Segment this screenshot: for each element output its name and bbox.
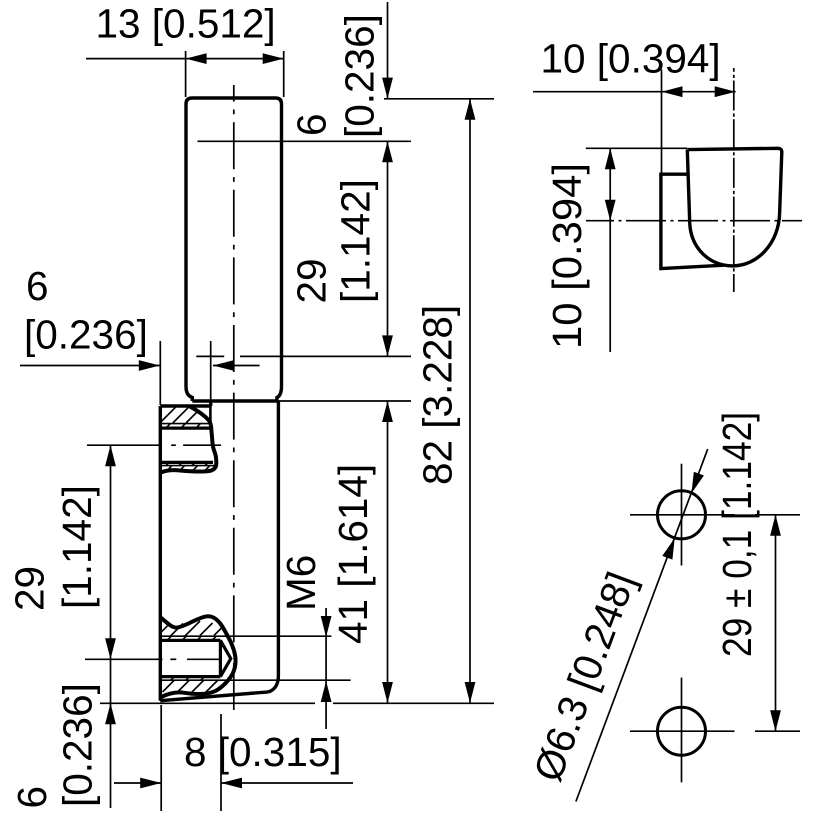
dim 6 [0.236] left-top: extension lines xyxy=(159,341,161,405)
leader line Ø6.3 xyxy=(576,449,708,801)
M6 hole top edge xyxy=(160,639,220,642)
upper hole centerline xyxy=(87,444,161,446)
svg-text:[1.142]: [1.142] xyxy=(54,485,100,609)
svg-text:13 [0.512]: 13 [0.512] xyxy=(96,1,276,47)
dim 10 [0.394] left: extension line at top edge level xyxy=(586,147,687,149)
dim 29 [1.142] right: dimension line xyxy=(387,141,389,356)
drill point cone xyxy=(220,640,230,676)
svg-text:41 [1.614]: 41 [1.614] xyxy=(330,464,376,644)
svg-text:6: 6 xyxy=(26,263,49,309)
dim 6 left-bottom arrow below y=703 xyxy=(105,703,116,724)
upper thread crest top line xyxy=(160,423,209,425)
line at y=141 (6mm feature line) xyxy=(198,140,412,142)
dim M6 leader line xyxy=(325,608,327,729)
bottom extension line at y=703 xyxy=(100,702,315,704)
top line extension at y=99 xyxy=(384,98,494,100)
leaf tab outline xyxy=(661,174,724,268)
shoulder extension line to the right (for 41 dim) xyxy=(278,400,411,402)
upper hole right step edge xyxy=(209,406,212,428)
dim 10 left dimension line xyxy=(609,148,611,352)
svg-text:[1.142]: [1.142] xyxy=(333,179,379,303)
hole circle bottom crosshair xyxy=(681,678,683,783)
upper hole top edge xyxy=(160,427,211,430)
dim 13 [0.512] dimension line with arrows xyxy=(86,58,284,60)
dim 29 [1.142] left: dimension line xyxy=(110,445,112,808)
svg-text:6: 6 xyxy=(289,113,335,136)
M6 hole bottom edge xyxy=(160,675,220,678)
svg-text:10 [0.394]: 10 [0.394] xyxy=(541,36,721,82)
svg-text:29 ± 0,1 [1.142]: 29 ± 0,1 [1.142] xyxy=(714,412,760,657)
lower break wave xyxy=(160,616,235,697)
extension line at y=355.6 xyxy=(196,355,224,357)
svg-text:82 [3.228]: 82 [3.228] xyxy=(415,305,461,485)
upper hole bottom edge xyxy=(160,461,213,464)
svg-text:29: 29 xyxy=(7,566,53,611)
drill flat xyxy=(219,640,222,676)
upper section hatching xyxy=(160,406,210,470)
dim 41 [1.614]: dimension line xyxy=(387,401,389,703)
dim 6 [0.236] right top: dimension line above xyxy=(387,2,389,99)
M6 hole centerline xyxy=(85,658,163,660)
dim 10 [0.394] top: extension line xyxy=(661,70,663,173)
svg-text:[0.236]: [0.236] xyxy=(337,14,383,138)
knuckle bucket outline xyxy=(687,148,782,266)
svg-text:8 [0.315]: 8 [0.315] xyxy=(184,729,342,775)
step between shoulder and body top xyxy=(209,401,212,406)
dim 8 dimension line xyxy=(114,782,161,784)
pin bottom-right neck curve xyxy=(277,388,282,402)
dim 8 [0.315]: extension lines xyxy=(160,705,162,811)
body left edge xyxy=(159,406,162,701)
dim 6 left-top dimension line xyxy=(20,365,160,367)
dim 13 [0.512] top: extension lines xyxy=(185,51,187,97)
hole circle top xyxy=(658,491,706,539)
svg-text:6: 6 xyxy=(9,786,55,809)
vertical centerline of pin xyxy=(233,85,235,713)
upper thread crest bottom line xyxy=(160,465,214,467)
dim 10 top dimension line xyxy=(533,91,736,93)
lower section hatching xyxy=(160,621,227,693)
knuckle horizontal centerline xyxy=(586,220,802,222)
body right edge with bottom-right corner radius xyxy=(269,401,279,692)
pin shoulder line xyxy=(192,399,278,402)
svg-text:10 [0.394]: 10 [0.394] xyxy=(544,163,590,349)
svg-text:M6: M6 xyxy=(278,555,324,611)
pin body outline (rounded top rectangle) xyxy=(186,98,282,388)
knuckle vertical centerline xyxy=(733,68,735,292)
M6 thread crest bottom line + extension right xyxy=(160,679,350,681)
svg-text:[0.236]: [0.236] xyxy=(55,683,101,807)
M6 thread crest top line + extension right xyxy=(160,635,331,637)
dim 82 [3.228]: dimension line xyxy=(469,99,471,703)
body bottom edge (slightly slanted) xyxy=(160,692,268,701)
hole circle bottom xyxy=(658,707,706,755)
lower body top edge xyxy=(160,404,210,407)
upper break wave xyxy=(160,407,216,473)
dim 29 ± 0,1 dimension line xyxy=(775,515,777,731)
svg-text:29: 29 xyxy=(289,258,335,303)
dim 29 ± 0,1: extension lines xyxy=(755,514,800,516)
hole circle top crosshair xyxy=(681,464,683,566)
pin bottom-left neck curve xyxy=(186,388,192,402)
svg-text:[0.236]: [0.236] xyxy=(24,312,148,358)
